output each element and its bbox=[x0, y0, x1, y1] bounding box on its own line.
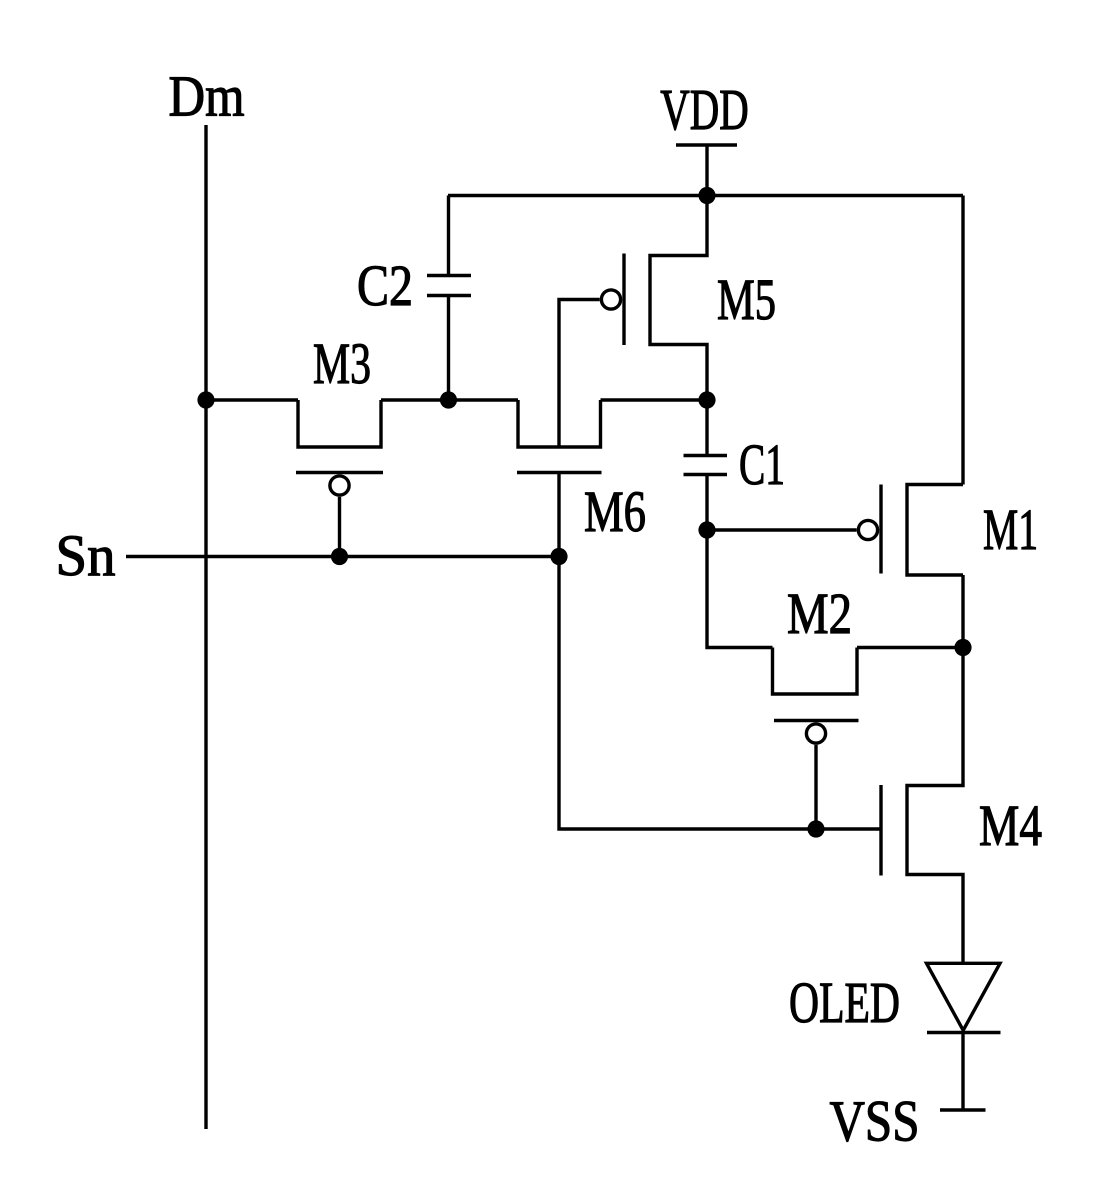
wire Dm data line bbox=[204, 125, 207, 1129]
transistor M4 channel bbox=[907, 648, 963, 964]
junction C2 node bbox=[440, 391, 457, 408]
junction VDD node bbox=[698, 187, 715, 204]
transistor M3 channel bbox=[298, 400, 381, 447]
wire node C to M2 bbox=[707, 530, 773, 648]
transistor M1 gate bubble bbox=[858, 520, 877, 539]
svg-text:Sn: Sn bbox=[56, 523, 116, 588]
wire M2 to node D bbox=[857, 646, 963, 649]
label OLED bbox=[789, 970, 900, 1035]
junction node D bbox=[954, 639, 971, 656]
wire C1 top stem bbox=[705, 400, 708, 456]
transistor M3 gate bar bbox=[296, 471, 383, 474]
transistor M1 gate bar bbox=[879, 485, 882, 574]
label M1 bbox=[983, 497, 1038, 562]
junction Dm-M3 node bbox=[197, 391, 214, 408]
power VSS label bbox=[830, 1089, 920, 1154]
transistor M5 channel bbox=[650, 196, 707, 401]
svg-text:M1: M1 bbox=[983, 497, 1038, 562]
junction M3 gate on Sn bbox=[331, 548, 348, 565]
junction M2 gate on M4 gate wire bbox=[807, 820, 824, 837]
wire Sn scan line bbox=[126, 555, 559, 558]
wire top rail bbox=[448, 194, 963, 197]
diode OLED cathode bar bbox=[927, 1031, 1001, 1034]
transistor M6 channel bbox=[518, 400, 601, 447]
wire C2 bottom branch bbox=[447, 296, 450, 401]
svg-text:C1: C1 bbox=[739, 432, 785, 497]
transistor M6 gate lead bbox=[557, 473, 560, 557]
capacitor C2 bbox=[427, 276, 471, 296]
svg-text:VSS: VSS bbox=[830, 1089, 920, 1154]
svg-text:M5: M5 bbox=[717, 267, 776, 332]
svg-text:M4: M4 bbox=[979, 793, 1042, 858]
label M3 bbox=[313, 331, 371, 396]
power VDD terminal bbox=[676, 145, 737, 196]
capacitor C1 bbox=[684, 456, 728, 475]
svg-text:OLED: OLED bbox=[789, 970, 900, 1035]
wire Sn branch to M4 gate bbox=[559, 557, 880, 830]
junction M6 gate on Sn bbox=[550, 548, 567, 565]
transistor M2 gate lead bbox=[814, 745, 817, 829]
svg-text:M6: M6 bbox=[584, 479, 646, 544]
wire OLED to VSS bbox=[961, 1033, 964, 1111]
svg-text:M2: M2 bbox=[787, 581, 852, 646]
transistor M1 gate lead bbox=[707, 528, 857, 531]
transistor M3 gate bubble bbox=[330, 476, 349, 495]
label C1 bbox=[739, 432, 785, 497]
net label Dm bbox=[169, 64, 245, 129]
junction node B bbox=[698, 391, 715, 408]
transistor M2 channel bbox=[773, 648, 858, 695]
transistor M5 gate lead bbox=[559, 300, 600, 448]
transistor M5 gate bubble bbox=[601, 290, 620, 309]
transistor M6 gate bar bbox=[517, 471, 602, 474]
svg-text:C2: C2 bbox=[357, 253, 413, 318]
net label Sn bbox=[56, 523, 116, 588]
power VSS terminal bbox=[940, 1108, 986, 1111]
svg-text:Dm: Dm bbox=[169, 64, 245, 129]
power VDD label bbox=[660, 77, 749, 142]
transistor M5 gate bar bbox=[622, 254, 625, 346]
wire right rail mid bbox=[961, 575, 964, 648]
transistor M2 gate bubble bbox=[806, 724, 825, 743]
wire row node A segments bbox=[206, 398, 707, 401]
label M6 bbox=[584, 479, 646, 544]
transistor M3 gate lead bbox=[338, 497, 341, 557]
junction node C bbox=[698, 521, 715, 538]
transistor M2 gate bar bbox=[774, 719, 859, 722]
label C2 bbox=[357, 253, 413, 318]
transistor M4 gate bar bbox=[879, 785, 882, 876]
label M2 bbox=[787, 581, 852, 646]
label M5 bbox=[717, 267, 776, 332]
svg-text:M3: M3 bbox=[313, 331, 371, 396]
label M4 bbox=[979, 793, 1042, 858]
transistor M1 channel bbox=[907, 485, 963, 576]
diode OLED anode triangle bbox=[927, 963, 1001, 1030]
wire C2 top branch bbox=[447, 196, 450, 276]
wire right rail upper bbox=[961, 196, 964, 485]
wire C1 bottom stem bbox=[705, 475, 708, 531]
svg-text:VDD: VDD bbox=[660, 77, 749, 142]
